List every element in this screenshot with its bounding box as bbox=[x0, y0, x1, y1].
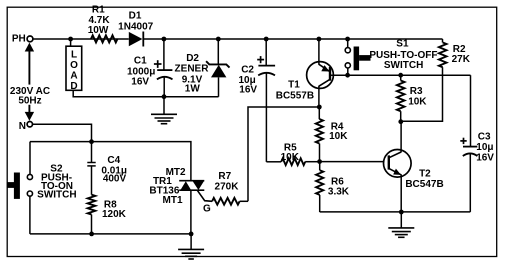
wire C2 bottom down to R5 (crosses R7 link) bbox=[265, 73, 267, 162]
wire neutral rail to triac MT2 bbox=[30, 142, 191, 181]
node junction R8 bottom bbox=[89, 232, 94, 237]
switch S2 PUSH-TO-ON bbox=[29, 142, 31, 175]
svg-text:10K: 10K bbox=[408, 96, 427, 107]
svg-text:D2: D2 bbox=[186, 53, 199, 64]
node junction R3 bottom / T2 collector bbox=[398, 119, 403, 124]
wire T1 base rail to C3 corner bbox=[330, 74, 471, 76]
transistor T2 BC547B (NPN) bbox=[384, 150, 412, 178]
svg-text:1N4007: 1N4007 bbox=[118, 21, 153, 32]
svg-text:C3: C3 bbox=[478, 131, 491, 142]
ground symbol below T2 bbox=[400, 212, 402, 228]
svg-text:270K: 270K bbox=[215, 181, 240, 192]
node junction triac MT1 / bottom rail bbox=[189, 232, 194, 237]
svg-text:O: O bbox=[70, 60, 78, 71]
svg-text:C1: C1 bbox=[134, 56, 147, 67]
triac TR1 BT136 bbox=[179, 180, 204, 182]
resistor R7 270K bbox=[212, 198, 240, 205]
capacitor C1 1000u 16V bbox=[163, 39, 165, 70]
node junction D2 top bbox=[216, 37, 221, 42]
transistor T1 BC557B (PNP) bbox=[318, 39, 320, 65]
wire LOAD bottom to ground rail bbox=[73, 90, 218, 97]
node junction C2 top bbox=[264, 37, 269, 42]
svg-text:ZENER: ZENER bbox=[175, 63, 210, 74]
svg-text:MT1: MT1 bbox=[163, 195, 183, 206]
LOAD box bbox=[66, 46, 82, 90]
node junction T2 emitter / bottom rail bbox=[399, 210, 404, 215]
node junction R4/R5/R6/T2-base bbox=[317, 159, 322, 164]
resistor R1 4.7K 10W bbox=[91, 35, 118, 42]
svg-text:S1: S1 bbox=[396, 39, 409, 50]
wire bottom-left rail S2 to triac MT1 bbox=[30, 233, 191, 235]
node junction C1 top bbox=[162, 37, 167, 42]
svg-text:400V: 400V bbox=[103, 173, 127, 184]
capacitor C4 0.01u 400V bbox=[91, 142, 93, 163]
wire T2 base bbox=[320, 161, 384, 163]
node junction LOAD top bbox=[68, 37, 73, 42]
wire R2 bottom crossing base rail down to R3 bottom node bbox=[401, 67, 443, 121]
svg-text:T2: T2 bbox=[419, 168, 431, 179]
switch S1 PUSH-TO-OFF bbox=[345, 37, 350, 42]
svg-text:10K: 10K bbox=[329, 131, 348, 142]
node junction C4 top bbox=[89, 139, 94, 144]
resistor R3 10K bbox=[398, 73, 403, 78]
svg-text:BC557B: BC557B bbox=[276, 90, 314, 101]
svg-text:L: L bbox=[71, 49, 77, 60]
svg-text:27K: 27K bbox=[452, 54, 471, 65]
capacitor C3 10u 16V bbox=[470, 75, 472, 146]
wire top rail D1 cathode to R2 corner bbox=[143, 38, 442, 40]
svg-text:16V: 16V bbox=[239, 84, 257, 95]
svg-text:SWITCH: SWITCH bbox=[384, 60, 423, 71]
svg-text:120K: 120K bbox=[102, 209, 127, 220]
node junction T1 collector / R4 top bbox=[317, 105, 322, 110]
svg-text:16V: 16V bbox=[131, 76, 149, 87]
resistor R6 3.3K bbox=[319, 162, 321, 171]
wire bottom-right rail C3 to R6 bbox=[320, 211, 471, 213]
wire N to C4 junction jog bbox=[32, 124, 91, 141]
svg-text:C4: C4 bbox=[107, 155, 120, 166]
svg-text:T1: T1 bbox=[288, 79, 300, 90]
wire triac gate lead bbox=[197, 190, 212, 201]
230V AC 50Hz supply arrows bbox=[25, 43, 34, 52]
resistor R2 27K bbox=[442, 39, 444, 43]
svg-text:N: N bbox=[19, 121, 26, 132]
svg-text:10K: 10K bbox=[281, 152, 300, 163]
ground symbol below triac bbox=[190, 234, 192, 250]
svg-text:R3: R3 bbox=[410, 86, 423, 97]
svg-text:D: D bbox=[70, 81, 77, 92]
svg-text:D1: D1 bbox=[129, 11, 142, 22]
svg-text:A: A bbox=[70, 70, 77, 81]
node junction C1 bottom / ground rail bbox=[162, 94, 167, 99]
wire top rail PH to D1 bbox=[33, 38, 129, 40]
svg-text:1W: 1W bbox=[185, 83, 201, 94]
node junction T1 emitter / top rail bbox=[317, 37, 322, 42]
svg-text:PH: PH bbox=[12, 34, 26, 45]
resistor R8 120K bbox=[88, 195, 96, 215]
svg-text:10W: 10W bbox=[88, 25, 109, 36]
svg-text:C2: C2 bbox=[241, 64, 254, 75]
svg-text:BC547B: BC547B bbox=[405, 179, 443, 190]
svg-text:16V: 16V bbox=[476, 152, 494, 163]
svg-text:G: G bbox=[203, 203, 211, 214]
svg-text:R7: R7 bbox=[218, 171, 231, 182]
wire link T1 collector to R7 (via left corner) bbox=[248, 107, 319, 201]
svg-text:10μ: 10μ bbox=[476, 142, 493, 153]
svg-text:SWITCH: SWITCH bbox=[37, 190, 76, 201]
resistor R4 10K bbox=[318, 107, 320, 119]
ground symbol (supply common) bbox=[163, 97, 165, 115]
svg-text:3.3K: 3.3K bbox=[328, 187, 350, 198]
diode D1 1N4007 bbox=[129, 32, 143, 46]
wire LOAD top stem bbox=[70, 39, 72, 46]
zener D2 9.1V 1W bbox=[217, 39, 219, 64]
resistor R5 10K bbox=[266, 161, 281, 163]
capacitor C2 10u 16V bbox=[265, 39, 267, 65]
